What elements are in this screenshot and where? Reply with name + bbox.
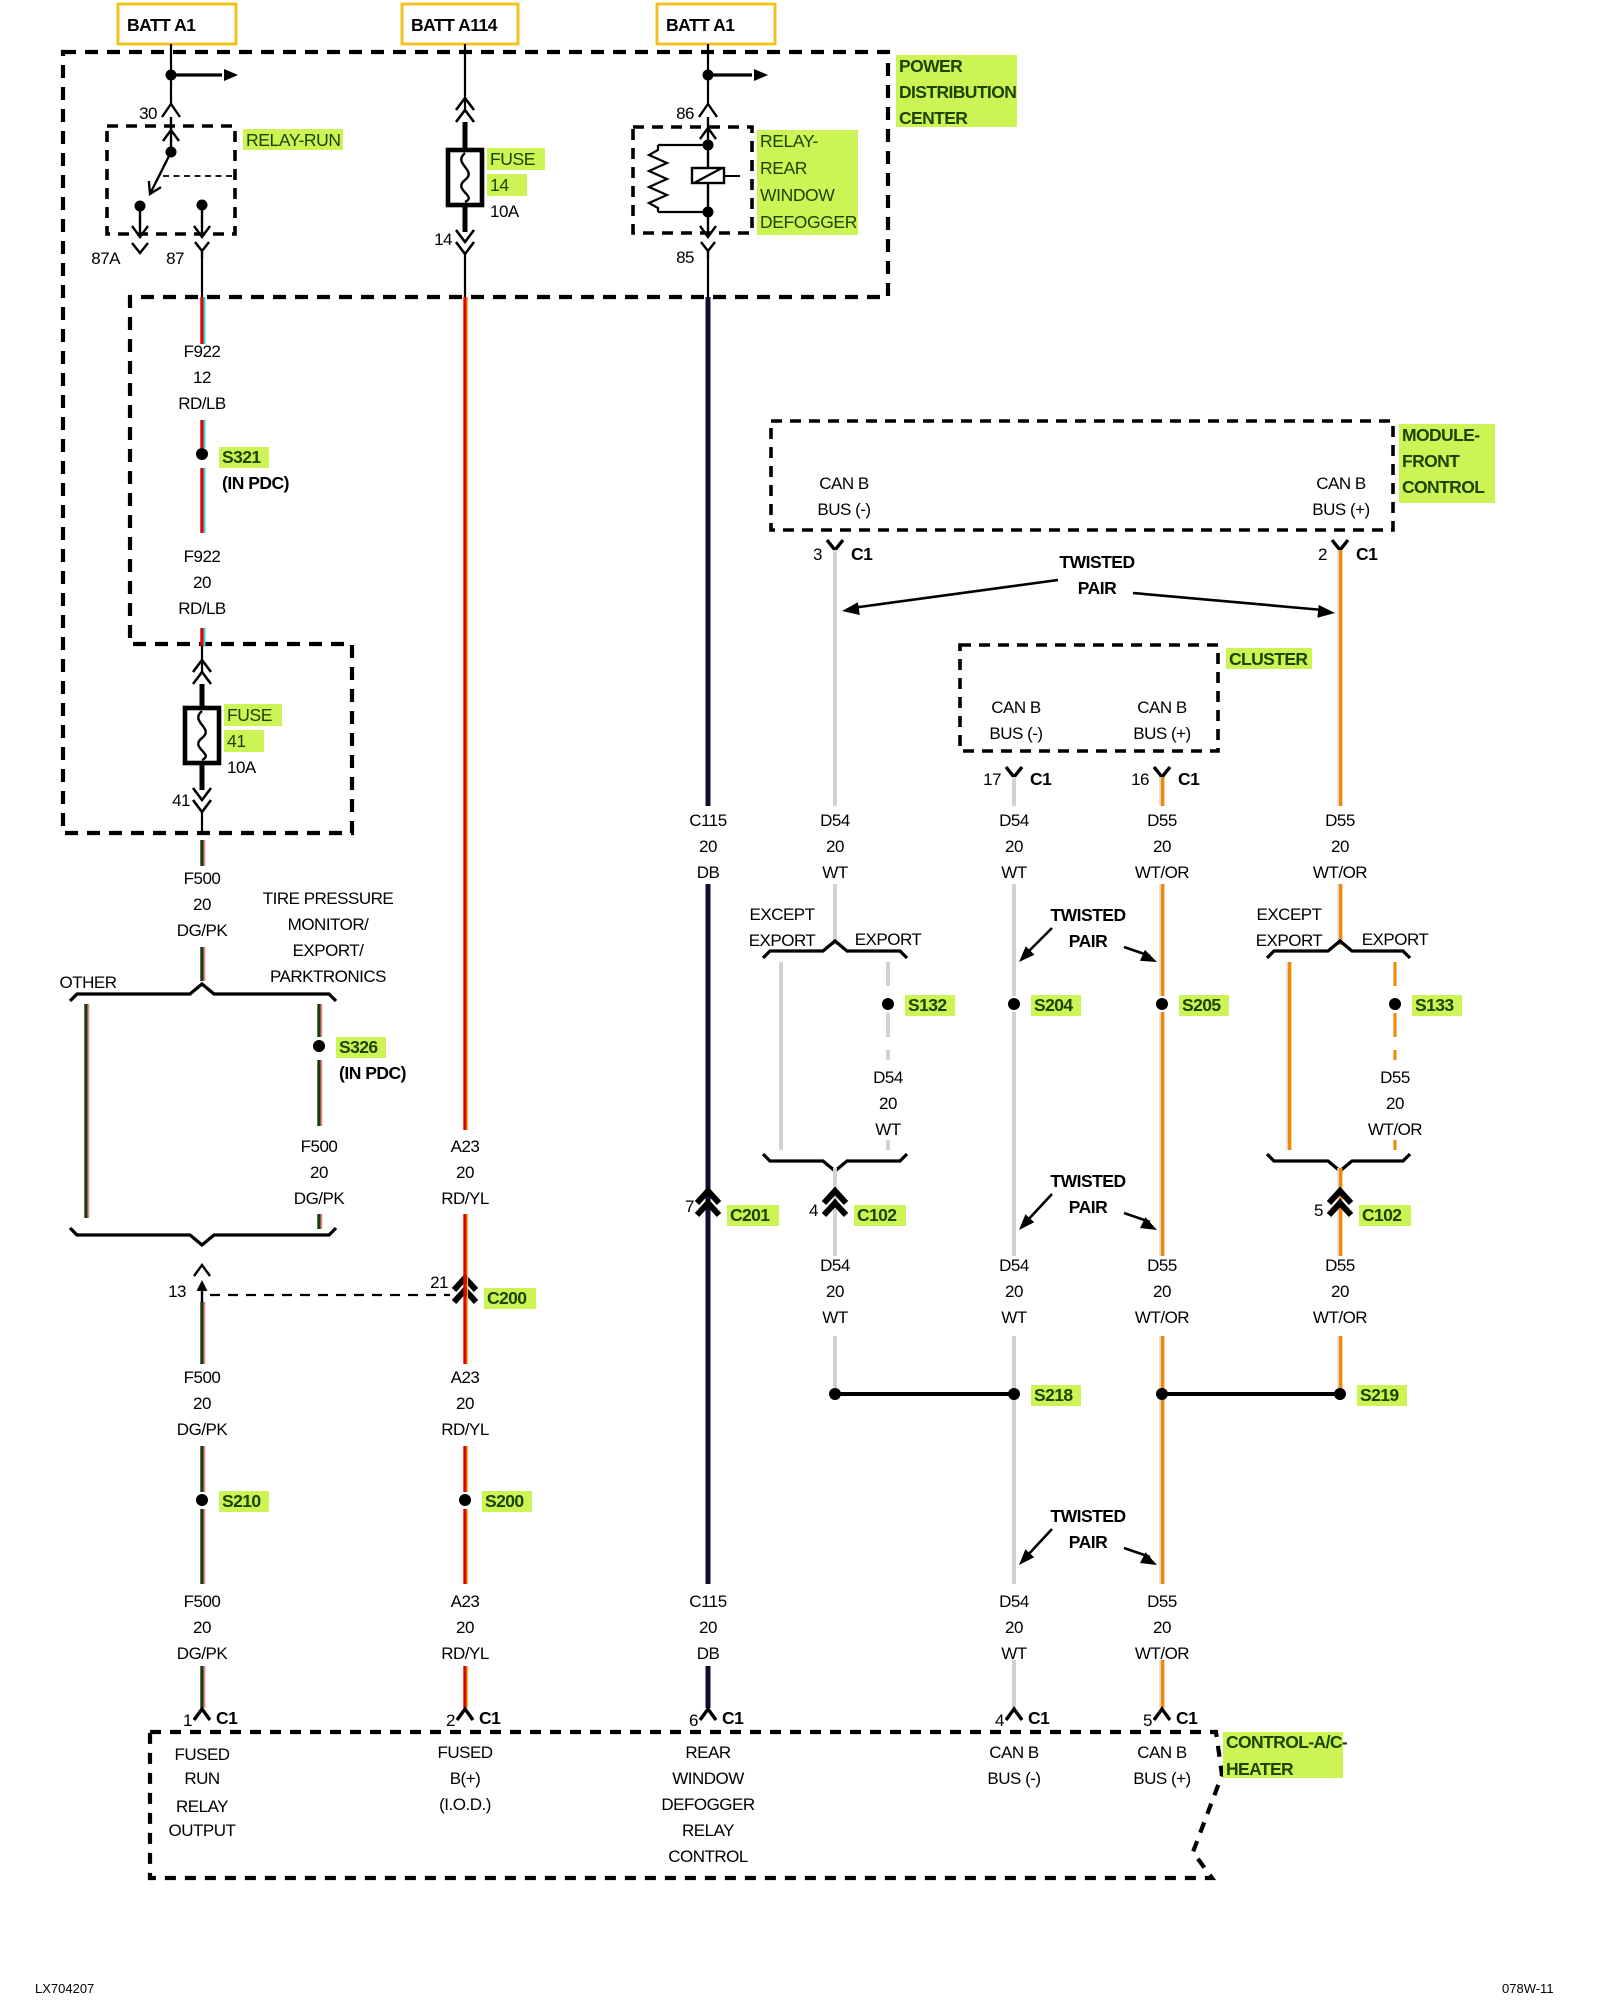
svg-text:1: 1 [183,1711,192,1730]
svg-text:41: 41 [227,731,246,751]
label D55 20 WT/OR (col7) [1313,811,1367,882]
svg-text:CAN B: CAN B [989,1743,1039,1762]
svg-text:BUS (-): BUS (-) [987,1769,1040,1788]
wire A23 20 RD/YL (long) [465,297,468,1130]
svg-text:EXPORT: EXPORT [855,930,922,949]
svg-text:2: 2 [446,1711,455,1730]
svg-text:TWISTED: TWISTED [1050,1171,1125,1191]
pin 85 [676,242,715,267]
branch merge brace (col7) [1267,1154,1410,1171]
label EXCEPT EXPORT (col7) [1256,905,1323,950]
svg-text:C1: C1 [851,544,873,564]
label F500 20 DG/PK [177,869,229,940]
svg-text:D55: D55 [1325,811,1355,830]
svg-text:C1: C1 [216,1708,238,1728]
wire BATT A114 to fuse 14 [464,44,466,110]
connector entry chevrons (fuse 41 feed) [193,646,211,710]
svg-text:20: 20 [879,1094,897,1113]
svg-text:D55: D55 [1147,1256,1177,1275]
svg-text:RELAY-RUN: RELAY-RUN [246,130,341,150]
label TWISTED PAIR (upper mid) [1050,905,1125,951]
svg-text:RD/LB: RD/LB [178,599,226,618]
svg-text:CAN B: CAN B [991,698,1041,717]
label D54 20 WT (export branch) [873,1068,903,1139]
wire OTHER branch DG/PK [86,1004,89,1218]
svg-text:BUS (+): BUS (+) [1133,1769,1190,1788]
svg-text:D54: D54 [999,811,1029,830]
splice S204 [1008,995,1081,1016]
relay RUN switch blade [149,152,171,194]
svg-text:20: 20 [193,1618,211,1637]
svg-text:2: 2 [1318,545,1327,564]
svg-text:BUS (-): BUS (-) [989,724,1042,743]
branch split brace (col7) [1267,941,1410,958]
svg-text:20: 20 [1153,837,1171,856]
wire D55 to pin 5 C1 [1160,1660,1162,1708]
label POWER DISTRIBUTION CENTER [896,55,1017,128]
label RELAY-REAR WINDOW DEFOGGER [757,130,858,235]
svg-text:WT: WT [1001,863,1027,882]
branch split brace (other / TPM) [70,984,336,1001]
label A23 20 RD/YL (mid) [441,1368,489,1439]
svg-text:RELAY: RELAY [682,1821,734,1840]
svg-text:D55: D55 [1380,1068,1410,1087]
svg-text:F500: F500 [184,1592,221,1611]
splice S205 [1156,995,1229,1016]
splice S133 [1389,995,1462,1016]
document number LX704207 [35,1981,94,1996]
wire BATT A1 to relay-RWD pin 86 [703,44,769,104]
svg-text:C115: C115 [689,811,726,830]
svg-text:S133: S133 [1415,995,1454,1015]
relay RWD pin 86 input [700,117,716,151]
branch merge brace [70,1228,336,1245]
svg-text:REAR: REAR [760,158,807,178]
svg-text:C1: C1 [1176,1708,1198,1728]
svg-text:20: 20 [456,1394,474,1413]
label F500 20 DG/PK (lower) [177,1368,229,1439]
svg-text:PARKTRONICS: PARKTRONICS [270,967,386,986]
svg-text:14: 14 [434,230,452,249]
label F500 20 DG/PK (TPM branch) [294,1137,346,1208]
wire segment into fuse box [202,628,205,646]
module pin label CAN B BUS (+) [1312,474,1369,519]
svg-text:TWISTED: TWISTED [1050,905,1125,925]
svg-text:EXCEPT: EXCEPT [749,905,814,924]
svg-text:A23: A23 [451,1137,480,1156]
pin 17 C1 (cluster) [983,767,1052,789]
svg-text:RUN: RUN [184,1769,219,1788]
pin 2 C1 (module) [1318,540,1378,564]
svg-text:10A: 10A [490,202,520,221]
svg-text:DEFOGGER: DEFOGGER [661,1795,755,1814]
cluster pin label CAN B BUS (+) [1133,698,1190,743]
svg-text:F922: F922 [184,342,221,361]
wire except-export branch WT/OR [1287,962,1289,1150]
wire below S210 [202,1509,205,1584]
svg-text:S200: S200 [485,1491,524,1511]
svg-text:D54: D54 [999,1592,1029,1611]
svg-text:S218: S218 [1034,1385,1073,1405]
splice S200 [459,1491,532,1512]
svg-text:C1: C1 [1030,769,1052,789]
svg-text:D55: D55 [1147,1592,1177,1611]
module front control enclosure [771,421,1393,530]
label D55 20 WT/OR (col6 bottom) [1135,1592,1189,1663]
wire relay-run 87 to PDC edge [201,258,203,297]
svg-text:FRONT: FRONT [1402,451,1460,471]
wire TPM branch below S326 [319,1060,322,1126]
svg-text:20: 20 [1331,837,1349,856]
label D54 20 WT (col5 bottom) [999,1592,1029,1663]
svg-text:C1: C1 [722,1708,744,1728]
label RELAY-RUN [243,129,343,150]
svg-text:C201: C201 [730,1205,770,1225]
svg-text:21: 21 [430,1273,448,1292]
label REAR WINDOW DEFOGGER RELAY CONTROL [661,1743,755,1866]
svg-text:20: 20 [310,1163,328,1182]
svg-text:86: 86 [676,104,694,123]
svg-text:WT: WT [822,1308,848,1327]
label FUSE 14 10A [487,148,545,221]
svg-text:TIRE PRESSURE: TIRE PRESSURE [263,889,394,908]
svg-text:5: 5 [1143,1711,1152,1730]
label CAN B BUS (-) (bottom) [987,1743,1040,1788]
wire D54 WT to S218 [833,1336,837,1394]
svg-text:13: 13 [168,1282,186,1301]
relay RUN inner dashed link [163,175,233,177]
svg-text:CONTROL-A/C-: CONTROL-A/C- [1226,1732,1348,1752]
label D55 20 WT/OR (col7 lower) [1313,1256,1367,1327]
wire segment to S321 [202,420,205,448]
label D54 20 WT (col4 lower) [820,1256,850,1327]
svg-text:10A: 10A [227,758,257,777]
label A23 20 RD/YL (bottom) [441,1592,489,1663]
svg-text:BATT A1: BATT A1 [127,15,196,35]
power distribution center enclosure [63,52,888,833]
svg-text:CAN B: CAN B [1137,698,1187,717]
wire D54 below S204 [1012,1012,1016,1256]
svg-text:14: 14 [490,175,509,195]
svg-text:RD/YL: RD/YL [441,1644,489,1663]
svg-text:HEATER: HEATER [1226,1759,1294,1779]
twisted pair arrow to D55 [1133,593,1335,618]
svg-text:D54: D54 [999,1256,1029,1275]
twisted pair arrows (upper mid) [1019,928,1157,962]
label CAN B BUS (+) (bottom) [1133,1743,1190,1788]
svg-text:BATT A114: BATT A114 [411,15,498,35]
wire to pin 1 C1 [202,1666,205,1708]
svg-text:20: 20 [456,1163,474,1182]
label D55 20 WT/OR (export branch) [1368,1068,1422,1139]
label TWISTED PAIR (bottom) [1050,1506,1125,1552]
svg-text:WINDOW: WINDOW [672,1769,744,1788]
wire C115 20 DB (upper) [706,297,711,806]
svg-text:EXCEPT: EXCEPT [1256,905,1321,924]
splice S321 [196,447,289,493]
label CONTROL-A/C-HEATER [1223,1732,1348,1779]
pin 4 C1 [995,1708,1050,1730]
connector entry chevrons (fuse 14 feed) [456,98,474,152]
svg-text:WT: WT [822,863,848,882]
module pin label CAN B BUS (-) [817,474,870,519]
wire TPM branch segment [319,1004,322,1037]
svg-text:WT/OR: WT/OR [1135,1308,1189,1327]
twisted pair arrow to D54 [842,580,1058,615]
svg-text:87A: 87A [91,249,121,268]
label TWISTED PAIR (top) [1059,552,1134,598]
label D55 20 WT/OR (col6 lower) [1135,1256,1189,1327]
pin 87 [166,242,209,268]
svg-text:PAIR: PAIR [1069,1532,1108,1552]
connector 13 (in-line) [168,1265,210,1302]
label TIRE PRESSURE MONITOR/EXPORT/PARKTRONICS [263,889,394,986]
svg-text:RELAY-: RELAY- [760,131,818,151]
wire D55 to split (col7) [1338,884,1340,945]
document number 078W-11 [1502,1981,1554,1996]
wire D55 to S219 [1338,1336,1340,1394]
wire to S210 [202,1446,205,1492]
wire to S200 [465,1446,468,1492]
label D54 20 WT (col5 lower) [999,1256,1029,1327]
splice S132 [882,995,955,1016]
svg-text:20: 20 [826,837,844,856]
svg-text:DG/PK: DG/PK [177,921,229,940]
wire D55 below S205 [1160,1012,1162,1256]
splice S219 [1156,1385,1407,1406]
splice S218 [829,1385,1081,1406]
svg-text:POWER: POWER [899,56,963,76]
svg-text:D54: D54 [820,1256,850,1275]
svg-text:20: 20 [699,837,717,856]
wire F922 12 RD/LB (segment) [202,297,205,344]
svg-text:DG/PK: DG/PK [177,1644,229,1663]
svg-text:TWISTED: TWISTED [1059,552,1134,572]
wire BATT A1 to relay-run pin 30 [166,44,239,104]
control A/C heater enclosure [150,1732,1222,1878]
svg-text:WT/OR: WT/OR [1313,863,1367,882]
svg-text:FUSE: FUSE [227,705,272,725]
svg-text:WT: WT [1001,1308,1027,1327]
pin 30 [139,104,180,123]
twisted pair arrows (lower mid) [1019,1194,1157,1230]
svg-text:CONTROL: CONTROL [1402,477,1485,497]
svg-text:20: 20 [193,573,211,592]
label A23 20 RD/YL [441,1137,489,1208]
svg-text:FUSED: FUSED [437,1743,492,1762]
wire D54 to split [833,884,837,945]
label D54 20 WT (col5) [999,811,1029,882]
svg-text:12: 12 [193,368,211,387]
svg-text:6: 6 [689,1711,698,1730]
branch merge brace (col4) [763,1154,907,1171]
svg-text:TWISTED: TWISTED [1050,1506,1125,1526]
svg-text:OTHER: OTHER [60,973,117,992]
label FUSED RUN RELAY OUTPUT [169,1745,236,1840]
label C115 20 DB [689,811,726,882]
svg-text:20: 20 [826,1282,844,1301]
svg-text:30: 30 [139,104,157,123]
svg-text:REAR: REAR [685,1743,730,1762]
svg-text:EXPORT: EXPORT [749,931,816,950]
svg-text:S132: S132 [908,995,947,1015]
wire to pin 6 C1 [706,1666,711,1708]
wire export branch WT/OR dashed [1393,962,1396,1150]
svg-text:078W-11: 078W-11 [1502,1981,1554,1996]
svg-text:20: 20 [1005,1618,1023,1637]
svg-text:CENTER: CENTER [899,108,968,128]
svg-text:EXPORT/: EXPORT/ [293,941,365,960]
svg-text:BUS (+): BUS (+) [1312,500,1369,519]
cluster pin label CAN B BUS (-) [989,698,1042,743]
svg-text:EXPORT: EXPORT [1256,931,1323,950]
svg-text:LX704207: LX704207 [35,1981,94,1996]
svg-text:C1: C1 [1028,1708,1050,1728]
svg-text:MONITOR/: MONITOR/ [288,915,369,934]
connector box BATT A1 (right feed) [657,4,775,44]
label CLUSTER [1226,648,1312,669]
svg-text:(IN PDC): (IN PDC) [222,473,289,493]
svg-text:OUTPUT: OUTPUT [169,1821,236,1840]
svg-text:DB: DB [697,863,720,882]
connector C201 pin 7 [685,1191,779,1226]
svg-text:C1: C1 [1178,769,1200,789]
svg-text:17: 17 [983,770,1001,789]
svg-text:WT: WT [875,1120,901,1139]
wire relay-RWD 85 to PDC edge [707,258,709,297]
svg-text:RD/YL: RD/YL [441,1420,489,1439]
svg-text:CAN B: CAN B [1137,1743,1187,1762]
wire F500 20 DG/PK (below PDC) [202,840,205,866]
wire TPM branch to merge [319,1214,322,1229]
wire to pin 2 C1 [465,1666,468,1708]
relay RWD coil [692,145,740,218]
branch split brace (col4) [763,941,907,958]
svg-text:RELAY: RELAY [176,1797,228,1816]
svg-text:20: 20 [1386,1094,1404,1113]
svg-text:C102: C102 [857,1205,897,1225]
svg-text:20: 20 [456,1618,474,1637]
relay RUN contact 30 input [163,117,179,158]
svg-text:PAIR: PAIR [1078,578,1117,598]
wire segment below S321 [202,468,205,533]
svg-text:S219: S219 [1360,1385,1399,1405]
relay REAR WINDOW DEFOGGER enclosure [633,127,752,233]
svg-text:20: 20 [1005,1282,1023,1301]
svg-text:DB: DB [697,1644,720,1663]
wire D55 through S219 [1160,1336,1162,1584]
svg-text:D55: D55 [1325,1256,1355,1275]
svg-text:4: 4 [809,1201,818,1220]
pin 14 exit chevrons [434,205,474,297]
svg-text:(I.O.D.): (I.O.D.) [439,1795,491,1814]
svg-text:MODULE-: MODULE- [1402,425,1480,445]
svg-text:C115: C115 [689,1592,726,1611]
svg-text:FUSE: FUSE [490,149,535,169]
svg-text:20: 20 [1153,1618,1171,1637]
svg-text:BATT A1: BATT A1 [666,15,735,35]
wire stub into branch split [202,947,205,981]
pin 41 exit chevrons [172,763,211,833]
pin 1 C1 [183,1708,238,1730]
label C115 20 DB (bottom) [689,1592,726,1663]
svg-text:A23: A23 [451,1368,480,1387]
svg-text:20: 20 [1153,1282,1171,1301]
label EXPORT (col4 right) [855,930,922,949]
svg-text:CONTROL: CONTROL [668,1847,748,1866]
svg-text:20: 20 [1331,1282,1349,1301]
svg-text:4: 4 [995,1711,1004,1730]
svg-text:RD/YL: RD/YL [441,1189,489,1208]
svg-text:20: 20 [193,1394,211,1413]
svg-text:20: 20 [193,895,211,914]
svg-text:PAIR: PAIR [1069,931,1108,951]
label D54 20 WT [820,811,850,882]
svg-text:WT/OR: WT/OR [1313,1308,1367,1327]
svg-text:WT/OR: WT/OR [1135,863,1189,882]
fuse F14 [448,150,482,205]
svg-text:B(+): B(+) [450,1769,481,1788]
label EXPORT (col7 right) [1362,930,1429,949]
label D55 20 WT/OR (col6) [1135,811,1189,882]
pin 5 C1 [1143,1708,1198,1730]
wire except-export branch WT [779,962,783,1150]
svg-text:5: 5 [1314,1201,1323,1220]
wire D54 through S218 [1012,1336,1016,1584]
pin 3 C1 (module) [813,540,873,564]
wire D54 to pin 4 C1 [1012,1660,1016,1708]
cluster enclosure [960,645,1218,751]
label FUSE 41 10A [224,704,282,777]
svg-text:S205: S205 [1182,995,1221,1015]
fuse F41 [185,708,219,763]
svg-text:C102: C102 [1362,1205,1402,1225]
svg-text:F500: F500 [184,1368,221,1387]
label TWISTED PAIR (lower mid) [1050,1171,1125,1217]
svg-text:87: 87 [166,249,184,268]
svg-text:BUS (+): BUS (+) [1133,724,1190,743]
wire D54 20 WT (cluster pin 17) [1012,777,1016,806]
wire D54 20 WT (module pin 3) [833,550,837,806]
label F922 20 RD/LB [178,547,226,618]
svg-text:D55: D55 [1147,811,1177,830]
svg-text:WINDOW: WINDOW [760,185,835,205]
pin 6 C1 [689,1708,744,1730]
wire A23 through C200 [465,1214,468,1364]
svg-text:DG/PK: DG/PK [294,1189,346,1208]
svg-text:F500: F500 [184,869,221,888]
svg-text:D54: D54 [820,811,850,830]
connector box BATT A1 (left feed) [118,4,236,44]
svg-text:CAN B: CAN B [819,474,869,493]
svg-text:BUS (-): BUS (-) [817,500,870,519]
twisted pair arrows (bottom) [1019,1529,1157,1565]
svg-text:CAN B: CAN B [1316,474,1366,493]
wire D55 20 WT/OR (cluster pin 16) [1160,777,1162,806]
svg-text:20: 20 [1005,837,1023,856]
svg-text:20: 20 [699,1618,717,1637]
svg-text:RD/LB: RD/LB [178,394,226,413]
svg-text:F500: F500 [301,1137,338,1156]
svg-text:3: 3 [813,545,822,564]
svg-text:DG/PK: DG/PK [177,1420,229,1439]
svg-text:41: 41 [172,791,190,810]
pin 86 [676,104,717,123]
wire below S200 [465,1509,468,1584]
label EXCEPT EXPORT (col4) [749,905,816,950]
svg-text:16: 16 [1131,770,1149,789]
wire D55 20 WT/OR (module pin 2) [1338,550,1340,806]
